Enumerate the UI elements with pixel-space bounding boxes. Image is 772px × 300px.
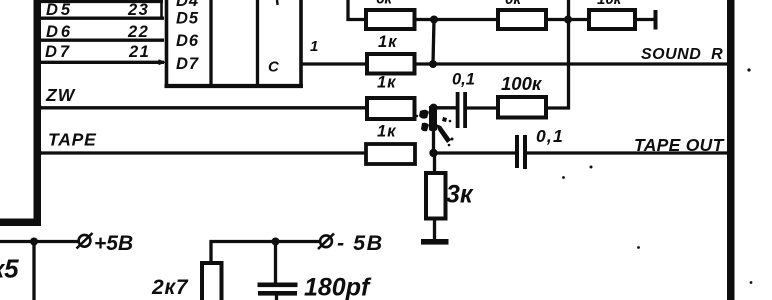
resistor R2 (label cut off) [498, 10, 546, 29]
junction node D [429, 104, 437, 112]
svg-text:к5: к5 [0, 254, 19, 284]
junction node G [272, 238, 280, 246]
wire node F down (cut off) [32, 242, 35, 300]
svg-text:C: C [268, 59, 280, 76]
speck 4 [637, 246, 640, 249]
svg-text:0к: 0к [505, 0, 522, 8]
svg-text:D5: D5 [176, 10, 199, 28]
svg-text:D4: D4 [176, 0, 199, 10]
wire D6 [37, 39, 164, 42]
table right rule [160, 0, 163, 17]
resistor R7 1к [366, 144, 415, 164]
wire node A down to SOUND R row [433, 20, 434, 64]
svg-text:180pf: 180pf [304, 274, 372, 300]
resistor R3 (label cut off) [589, 10, 635, 29]
svg-text:21: 21 [128, 43, 150, 61]
wire R3 to terminal [635, 18, 654, 21]
svg-text:D6: D6 [176, 32, 199, 50]
speck 3 [562, 176, 565, 179]
wire node D to C1 [434, 106, 457, 109]
svg-text:22: 22 [127, 23, 149, 41]
wire node E to C2 [434, 151, 516, 154]
frame border right [727, 0, 735, 300]
svg-text:2к7: 2к7 [151, 276, 189, 299]
svg-text:TAPE: TAPE [48, 130, 97, 150]
terminal +5V circle [77, 233, 93, 249]
svg-text:1: 1 [310, 38, 318, 55]
wire node G to C3 [274, 242, 277, 284]
wire D4 row (cut off at top) [37, 0, 163, 3]
wire -5V rail [211, 242, 321, 264]
wire R8 to ground [433, 219, 436, 241]
capacitor C2 0,1 [515, 135, 527, 169]
svg-text:D5: D5 [46, 1, 73, 19]
wire TAPE OUT [527, 151, 727, 154]
speck 5 [750, 281, 753, 284]
speck 1 [747, 68, 750, 71]
wire +5V rail [0, 240, 79, 243]
svg-text:3к: 3к [446, 181, 474, 209]
wire node B to 100k (vertical, crosses SOUND R) [546, 0, 569, 108]
wire D7 [37, 61, 164, 64]
svg-text:0,1: 0,1 [536, 126, 564, 146]
svg-text:D7: D7 [176, 55, 199, 73]
wire R1 to R2 [415, 18, 499, 21]
terminal -5V circle [318, 234, 334, 250]
svg-text:+5В: +5В [94, 232, 133, 255]
speck 2 [590, 166, 593, 169]
svg-text:D7: D7 [45, 43, 72, 61]
svg-text:1к: 1к [377, 74, 397, 92]
bus edge (thick connector border, left) [0, 0, 41, 226]
wire U1 pin1 to R4 [301, 62, 367, 65]
ground [421, 239, 449, 245]
resistor R5 1к [367, 98, 415, 119]
wire C1 to R6 [467, 106, 498, 109]
resistor R8 3к (vertical) [426, 173, 446, 219]
capacitor C1 0,1 [456, 92, 467, 128]
resistor R9 2к7 (vertical, cut off bottom) [202, 263, 222, 300]
wire R2 to R3 [546, 18, 589, 21]
junction on bus at TAPE [36, 150, 42, 156]
svg-text:SOUND R: SOUND R [641, 46, 723, 63]
wire ZW [37, 106, 367, 109]
junction node A [430, 16, 438, 24]
junction on bus at ZW [36, 105, 42, 111]
svg-text:6к: 6к [376, 0, 393, 8]
wire node E down to R8 [433, 153, 436, 174]
resistor R1 (label cut off) [366, 10, 415, 29]
partial glyph above C column [276, 0, 279, 5]
wire SOUND R [415, 62, 728, 65]
wire stub top-left of R1 row [348, 0, 366, 20]
smudge scribble at node D [416, 106, 454, 146]
junction node F [30, 238, 38, 246]
wire TAPE [37, 151, 366, 154]
svg-text:1к: 1к [378, 33, 398, 51]
wire C3 down (cut off) [275, 296, 278, 300]
svg-text:D6: D6 [46, 23, 73, 41]
op-amp U1 (IC box, top cut off) [165, 0, 304, 87]
svg-text:TAPE OUT: TAPE OUT [634, 135, 725, 155]
svg-text:1к: 1к [377, 123, 397, 141]
svg-text:100к: 100к [501, 73, 543, 94]
svg-text:ZW: ZW [45, 85, 76, 105]
capacitor C3 180pf [258, 283, 298, 296]
svg-text:23: 23 [127, 1, 149, 19]
junction on bus at D7 [35, 59, 41, 65]
junction node E [429, 149, 437, 157]
resistor R6 100к [498, 97, 546, 118]
junction node B [564, 16, 572, 24]
junction node C [429, 60, 437, 68]
pin arrow D7 [159, 59, 167, 65]
wire node D to node E [432, 108, 435, 153]
terminal stub end [654, 10, 658, 30]
resistor R4 1к [367, 54, 415, 74]
svg-text:- 5В: - 5В [337, 231, 384, 255]
svg-text:10к: 10к [597, 0, 623, 8]
wire D5 [37, 17, 164, 20]
svg-text:0,1: 0,1 [452, 71, 475, 89]
